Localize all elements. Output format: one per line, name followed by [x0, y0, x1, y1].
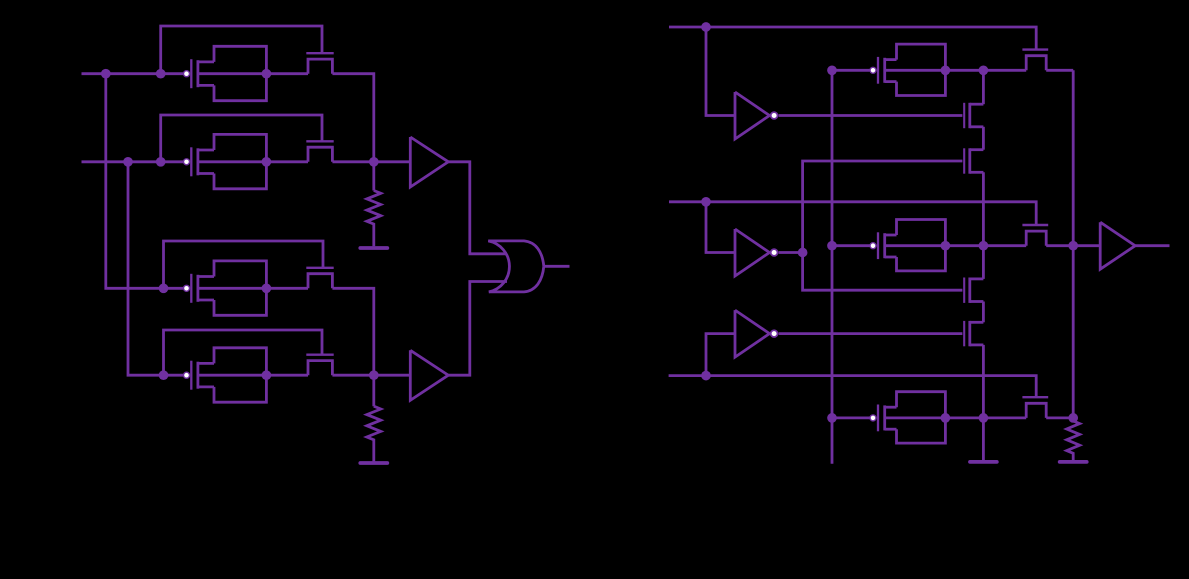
wire output of QAa	[885, 69, 1026, 72]
resistor R2 (pull-down at node X2)	[367, 375, 381, 461]
wire source-drain loop of Q4a	[214, 348, 266, 402]
junction U5 output node	[798, 248, 808, 258]
transistor M1 (series NMOS on rail B)	[964, 103, 983, 128]
wire rail A to QA	[832, 69, 870, 72]
wire gate loop of Q4b	[164, 330, 323, 375]
buffer U7 (output)	[1100, 222, 1135, 269]
junction loop/output node of QMa	[941, 241, 951, 251]
wire rail C (output bus)	[1072, 70, 1075, 418]
OR gate U3	[488, 241, 544, 292]
transistor QMa (bubbled pass transistor)	[870, 232, 897, 259]
transistor Q4a (bubbled pass transistor, row 4)	[184, 361, 215, 390]
transistor QAb (NMOS pass transistor)	[1022, 50, 1048, 71]
wire rail A to QB	[832, 416, 870, 419]
junction row B / rail C	[1068, 413, 1078, 423]
wire output of QMa	[885, 244, 1026, 247]
junction input A / rail-1	[101, 69, 111, 79]
wire input to U4	[706, 27, 734, 116]
junction node X1 (rows 1+2 output)	[369, 157, 379, 167]
wire rail B to ground	[982, 418, 985, 460]
wire gate loop of Q2b	[161, 115, 322, 162]
buffer U2	[410, 350, 448, 400]
wire U2 output to OR gate input 2	[448, 282, 507, 376]
wire U5 output	[779, 251, 803, 254]
wire output of QBa	[885, 416, 1026, 419]
wire rail B segment row A to M1	[982, 70, 985, 104]
wire output of Q4a to Q4b	[198, 374, 308, 377]
wire source-drain loop of Q2a	[214, 134, 266, 188]
wire row A to rail C	[1046, 69, 1073, 72]
wire U5 output up to gate of M2	[803, 161, 963, 253]
transistor Q2b (NMOS pass transistor, row 2)	[306, 141, 333, 162]
inverter U5	[735, 229, 777, 276]
junction row M / rail C	[1068, 241, 1078, 251]
wire input B (left row 2)	[82, 160, 184, 163]
junction input D / inverter U5 tap	[701, 197, 711, 207]
wire output of Q2a to Q2b	[198, 160, 308, 163]
transistor QBb (NMOS pass transistor)	[1022, 397, 1048, 418]
junction loop/output node of QAa	[941, 65, 951, 75]
wire U1 output to OR gate input 1	[448, 162, 507, 254]
inverter U4	[735, 92, 777, 139]
junction rail A / row A	[827, 65, 837, 75]
buffer U1	[410, 137, 448, 187]
junction row B / rail B	[979, 413, 989, 423]
junction row A / rail B	[979, 65, 989, 75]
resistor R3 (pull-down at output node)	[1067, 418, 1080, 460]
junction input C / inverter U4 tap	[701, 22, 711, 32]
transistor M3 (series NMOS on rail B)	[964, 278, 983, 303]
wire output row 2 to buffer U1	[332, 160, 410, 163]
wire rail A to QM	[832, 244, 870, 247]
wire rail B segment M3 to M4	[982, 302, 985, 323]
wire source-drain loop of QBa	[897, 392, 946, 443]
wire rail B segment M2 to row M	[982, 172, 985, 245]
wire row M to buffer U7	[1046, 244, 1100, 247]
wire source-drain loop of QMa	[897, 220, 946, 271]
wire input to U6	[706, 334, 734, 376]
wire output row 3 down to node X2	[332, 288, 373, 375]
transistor QBa (bubbled pass transistor)	[870, 405, 897, 432]
junction row 3 / gate loop 3	[159, 283, 169, 293]
wire source-drain loop of QAa	[897, 44, 946, 95]
wire row B to rail C	[1046, 416, 1073, 419]
wire output row 1 down to node X1	[332, 74, 373, 162]
wire output of Q1a to Q1b	[198, 72, 308, 75]
wire rail B segment M1 to M2	[982, 127, 985, 150]
junction input B / gate loop 2	[156, 157, 166, 167]
junction input A / gate loop 1	[156, 69, 166, 79]
junction node X2 (rows 3+4 output)	[369, 370, 379, 380]
transistor Q4b (NMOS pass transistor, row 4)	[306, 355, 333, 376]
junction row M / rail B	[979, 241, 989, 251]
ground (below R1)	[360, 246, 387, 250]
wire gate loop of Q1b	[161, 26, 322, 74]
ground (below R2)	[360, 461, 387, 465]
wire input C (right row 1)	[669, 27, 1036, 49]
wire input E (right row 3)	[669, 376, 1037, 398]
transistor Q3b (NMOS pass transistor, row 3)	[306, 268, 333, 289]
transistor QMb (NMOS pass transistor)	[1022, 225, 1048, 246]
inverter U6	[735, 310, 777, 357]
junction loop/output node of Q3a	[262, 283, 272, 293]
junction loop/output node of Q4a	[262, 370, 272, 380]
wire rail B segment M4 to row B	[982, 345, 985, 418]
wire input D (right row 2)	[669, 202, 1036, 224]
junction input E / inverter U6 tap	[701, 371, 711, 381]
transistor Q1a (bubbled pass transistor, row 1)	[184, 59, 215, 88]
transistor M4 (series NMOS on rail B)	[964, 321, 983, 346]
wire output of Q3a to Q3b	[198, 287, 308, 290]
ground (below R3)	[1060, 460, 1087, 464]
transistor QAa (bubbled pass transistor)	[870, 57, 897, 84]
wire input to U5	[706, 202, 734, 253]
wire gate loop of Q3b	[164, 241, 324, 288]
junction input B / rail-2	[123, 157, 133, 167]
wire source-drain loop of Q3a	[214, 261, 266, 315]
junction row 4 / gate loop 4	[159, 370, 169, 380]
wire U6 output to gate of M4	[779, 332, 963, 335]
transistor Q2a (bubbled pass transistor, row 2)	[184, 147, 215, 176]
junction rail A / row M	[827, 241, 837, 251]
transistor Q1b (NMOS pass transistor, row 1)	[306, 53, 333, 73]
wire U5 output down to gate of M3	[803, 253, 963, 291]
wire input A (left row 1)	[82, 72, 184, 75]
wire U4 output to gate of M1	[779, 114, 963, 117]
junction loop/output node of Q2a	[262, 157, 272, 167]
resistor R1 (pull-down at node X1)	[367, 162, 381, 246]
wire rail B segment row M to M3	[982, 246, 985, 279]
wire U7 output	[1135, 244, 1169, 247]
ground (rail B)	[970, 460, 997, 464]
wire OR gate output	[544, 265, 570, 268]
transistor M2 (series NMOS on rail B)	[964, 148, 983, 173]
transistor Q3a (bubbled pass transistor, row 3)	[184, 274, 215, 303]
wire rail-2 input B down to row 4	[128, 162, 183, 375]
wire rail-1 input A down to row 3	[106, 74, 183, 289]
junction loop/output node of Q1a	[262, 69, 272, 79]
wire output row 4 to buffer U2	[332, 374, 410, 377]
wire rail A (inverted-input bus)	[831, 70, 834, 463]
junction loop/output node of QBa	[941, 413, 951, 423]
junction rail A / row B	[827, 413, 837, 423]
wire source-drain loop of Q1a	[214, 46, 266, 100]
